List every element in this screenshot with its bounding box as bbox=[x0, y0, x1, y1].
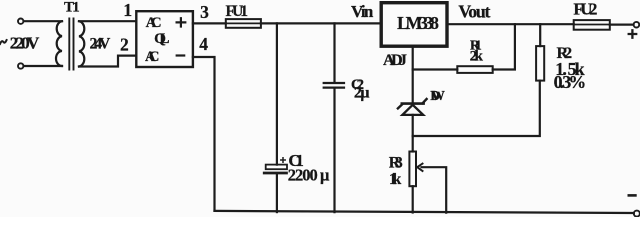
wire pin 1 (secondary top to QL) bbox=[79, 20, 136, 22]
fuse FU1 bbox=[226, 19, 261, 28]
regulator LM338 box bbox=[381, 3, 447, 47]
capacitor C1 (electrolytic) top plate bbox=[266, 165, 287, 170]
svg-text:2 μ: 2 μ bbox=[354, 84, 370, 101]
svg-text:1: 1 bbox=[123, 0, 132, 20]
svg-text:2k: 2k bbox=[470, 47, 484, 64]
wire R2 top bbox=[539, 24, 541, 46]
terminal: AC input bottom bbox=[18, 63, 23, 68]
svg-text:T1: T1 bbox=[64, 0, 80, 16]
bottom rail bbox=[215, 211, 634, 213]
transformer T1 secondary winding bbox=[79, 21, 84, 66]
resistor R1 bbox=[457, 66, 492, 73]
zener bar end hooks bbox=[398, 99, 427, 108]
svg-text:AC: AC bbox=[145, 49, 159, 65]
wire ADJ pin down bbox=[412, 46, 414, 102]
label - (QL minus) bbox=[177, 54, 185, 56]
terminal: - output bbox=[634, 211, 640, 217]
wire node to R3 top bbox=[412, 136, 414, 152]
svg-text:LM338: LM338 bbox=[397, 13, 439, 33]
svg-text:Vout: Vout bbox=[458, 2, 490, 22]
svg-text:2: 2 bbox=[120, 35, 129, 55]
svg-text:FU1: FU1 bbox=[226, 3, 249, 20]
fuse FU2 bbox=[574, 20, 610, 30]
wire node to R2 bottom (horizontal) bbox=[413, 81, 540, 136]
wire FU2 to + terminal bbox=[610, 24, 634, 26]
wire C2 branch top bbox=[333, 23, 335, 82]
wire R1 left to ADJ line bbox=[413, 68, 458, 70]
wire R3 wiper to bottom rail bbox=[422, 167, 447, 212]
terminal: + output bbox=[634, 22, 640, 28]
transformer T1 primary winding bbox=[56, 21, 62, 66]
capacitor C2 plates bbox=[324, 83, 344, 88]
wire zener bottom to node bbox=[412, 115, 414, 136]
svg-text:QL: QL bbox=[154, 30, 169, 47]
svg-text:Vin: Vin bbox=[351, 2, 374, 21]
wire top rail FU1 to LM338 Vin bbox=[261, 22, 381, 24]
R3 wiper arrow bbox=[417, 164, 422, 171]
label + (QL plus) bbox=[177, 18, 186, 26]
svg-text:ADJ: ADJ bbox=[383, 51, 407, 69]
zener anode triangle bbox=[402, 105, 423, 115]
svg-text:4: 4 bbox=[199, 34, 208, 54]
potentiometer R3 body bbox=[409, 152, 416, 187]
svg-text:DW: DW bbox=[430, 88, 445, 103]
wire R3 bottom bbox=[412, 186, 414, 212]
label + (C1 polarity) bbox=[281, 158, 285, 162]
capacitor C1 bottom plate bbox=[264, 172, 286, 175]
label + (output plus) bbox=[629, 30, 637, 37]
zener diode DW cathode bar bbox=[402, 102, 424, 105]
wire C1 branch top bbox=[276, 23, 278, 164]
wire pin 4 (QL - out, down to bottom rail) bbox=[193, 57, 215, 211]
wire top terminal to primary bbox=[24, 20, 62, 22]
svg-text:R3: R3 bbox=[389, 154, 403, 171]
svg-text:220V: 220V bbox=[10, 33, 40, 52]
svg-text:3: 3 bbox=[200, 2, 209, 22]
wire R1 right up to Vout rail bbox=[493, 24, 515, 69]
svg-text:1k: 1k bbox=[389, 171, 402, 188]
svg-text:FU2: FU2 bbox=[573, 0, 597, 18]
svg-text:2200 μ: 2200 μ bbox=[288, 166, 330, 185]
label - (output minus) bbox=[629, 194, 636, 197]
terminal: AC input top bbox=[18, 19, 23, 24]
wire Vout rail to FU2 bbox=[447, 23, 574, 25]
wire pin 2 (secondary bottom step to QL) bbox=[79, 56, 136, 67]
wire pin 3 (QL + out) bbox=[193, 22, 226, 24]
wire C1 bottom bbox=[276, 174, 278, 212]
resistor R2 bbox=[536, 46, 544, 81]
wire bottom terminal to primary bbox=[24, 65, 62, 67]
svg-text:0. 3%: 0. 3% bbox=[554, 72, 587, 92]
label ~ (AC tilde) bbox=[0, 40, 7, 44]
wire C2 bottom bbox=[333, 89, 335, 213]
svg-text:24V: 24V bbox=[90, 36, 111, 53]
svg-text:AC: AC bbox=[146, 15, 162, 31]
rectifier QL box bbox=[136, 11, 193, 67]
transformer T1 core bbox=[69, 19, 73, 70]
